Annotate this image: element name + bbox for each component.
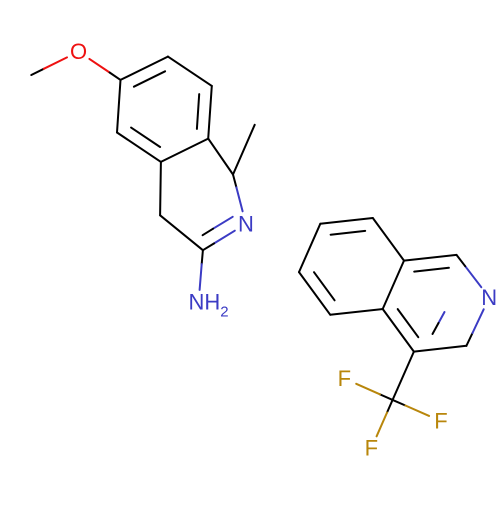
ring A edge A8=Cz	[208, 86, 212, 139]
bond C-F2	[393, 400, 406, 406]
ring Q edge Qa-Qb	[299, 272, 330, 315]
bond C-F3	[387, 400, 393, 413]
ring A edge A7-A8	[168, 57, 212, 86]
bond C-NH2	[202, 250, 203, 264]
pyridine double C4=C5 inner	[398, 309, 419, 337]
ring Q edge Qd-C3	[373, 218, 404, 261]
pyridine double C6=N inner line	[439, 312, 445, 323]
pyridine N-C2	[465, 266, 481, 287]
ring A double Cy=A5 inner	[131, 128, 160, 147]
ring Q edge Qc-Qd	[320, 218, 373, 224]
svg-text:F: F	[365, 436, 378, 461]
ring Q double Qc=Qd inner	[331, 231, 366, 235]
svg-text:F: F	[434, 409, 447, 434]
svg-text:F: F	[338, 366, 351, 391]
bond O-C aryl	[89, 59, 109, 73]
bond CH3-O methoxy	[31, 69, 44, 75]
svg-text:N: N	[238, 211, 254, 236]
ring Q edge Qb-Qc	[299, 224, 320, 272]
ring A edge Cy=A5	[117, 133, 161, 162]
ring B edge Cx-Cy	[159, 162, 162, 215]
ring B edge Cz-C3p	[208, 139, 233, 175]
svg-text:N: N	[481, 285, 497, 310]
pyridine C4-C5	[383, 309, 414, 352]
ring A edge A6=A7	[121, 57, 168, 80]
pyridine C2-C3	[404, 255, 457, 261]
ring B edge Cam-Cx	[160, 215, 203, 250]
ring B edge C3p-N	[233, 175, 236, 188]
ring A fused edge Cz-Cy	[161, 139, 208, 162]
bond C5-CF3	[393, 352, 414, 400]
ring A double A8=Cz inner	[197, 94, 199, 129]
ring Q double Qa=Qb inner	[314, 272, 335, 300]
ring B edge N=C amidine	[214, 231, 235, 244]
pyridine C5-C6	[414, 346, 467, 352]
ring A edge A5-A6	[117, 80, 121, 133]
bond C-F1	[380, 394, 393, 400]
svg-text:O: O	[70, 39, 87, 64]
pyridine fused edge C3-C4	[383, 261, 404, 309]
ring Q edge C4-Qa	[330, 309, 383, 315]
ring A double A6=A7 inner	[134, 71, 165, 86]
ring B double N=C inner	[213, 217, 233, 229]
pyridine double C2=C3 inner	[414, 268, 449, 272]
pyridine C6=N	[466, 333, 472, 346]
bond C3p-CH3 methyl	[233, 125, 255, 175]
